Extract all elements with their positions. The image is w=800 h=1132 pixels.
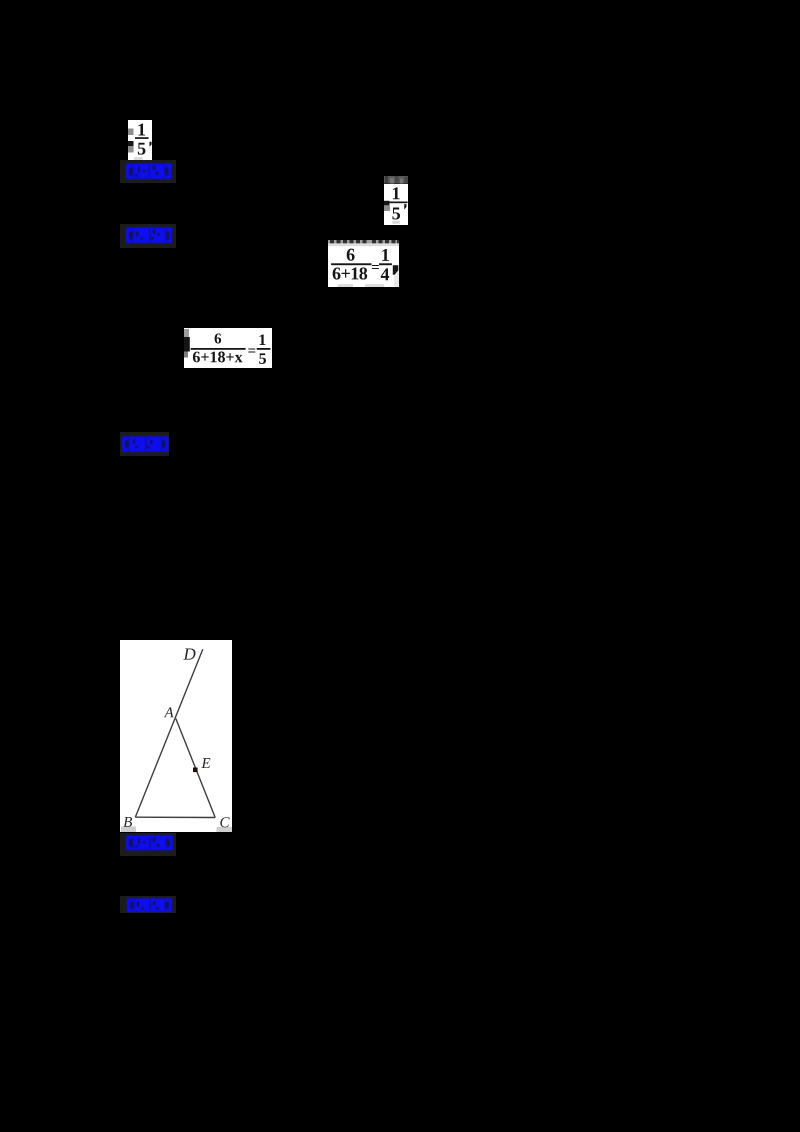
point E dot — [193, 767, 198, 772]
partial glyph left edge — [184, 329, 189, 337]
label C — [220, 817, 229, 827]
numerator 1 — [259, 334, 265, 345]
numerator 1 — [382, 249, 389, 261]
bottom gray residue — [338, 284, 353, 287]
denominator 6+18+x — [192, 351, 199, 362]
base line B to C — [135, 816, 215, 818]
fraction bar 2 — [379, 263, 392, 265]
equation image: =1/5 (second) — [384, 184, 408, 225]
comma — [404, 204, 406, 209]
bottom gray residue — [134, 157, 143, 160]
denominator 6+18 — [333, 267, 341, 279]
fraction bar — [389, 201, 407, 203]
numerator 6 — [214, 333, 221, 343]
label A — [164, 707, 174, 717]
equals — [248, 348, 255, 352]
label B — [123, 816, 132, 826]
line B through A to D — [135, 649, 203, 817]
denominator 5 — [392, 207, 400, 219]
label E — [201, 758, 210, 768]
equation image: 6/(6+18+x)=1/5 — [184, 328, 273, 368]
gray patch bottom-left — [121, 826, 136, 832]
big comma — [393, 265, 398, 274]
label D — [183, 648, 195, 659]
line A to C through E — [176, 718, 215, 817]
blue label 2 — [120, 224, 177, 248]
blue label 3 — [120, 432, 169, 456]
denominator 4 — [381, 268, 389, 280]
equals — [372, 265, 379, 269]
blue label 5 — [120, 896, 177, 913]
geometry figure box — [120, 640, 232, 832]
equation image: =1/5 (first) — [128, 120, 152, 161]
denominator 5 — [138, 142, 146, 154]
equation image: 6/(6+18)=1/4 — [328, 240, 399, 287]
fraction bar 2 — [256, 348, 270, 350]
numerator 1 — [138, 123, 145, 135]
denominator 5 — [259, 353, 266, 364]
fraction bar — [135, 137, 149, 139]
blue label 1 — [120, 160, 177, 183]
gray residue strip above second equation — [384, 176, 408, 184]
bottom gray residue — [392, 220, 400, 223]
fraction bar 1 — [331, 263, 371, 265]
numerator 6 — [347, 248, 355, 260]
partial equals sign — [128, 128, 134, 135]
gray patch bottom-right — [217, 827, 233, 832]
partial equals sign — [384, 200, 390, 205]
comma — [150, 141, 152, 146]
numerator 1 — [393, 187, 400, 199]
white figure background — [120, 640, 232, 832]
fraction bar 1 — [190, 348, 245, 350]
dark dash residue row — [328, 240, 399, 243]
blue label 4 — [120, 833, 177, 856]
